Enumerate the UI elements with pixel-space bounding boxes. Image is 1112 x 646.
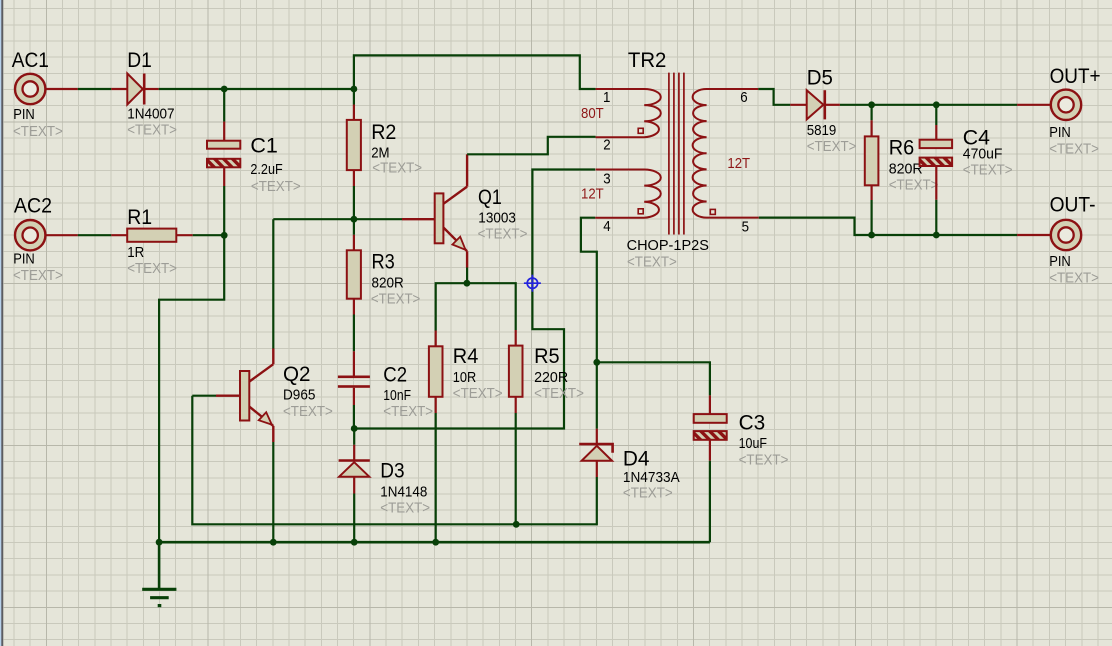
svg-text:13003: 13003 <box>478 210 516 226</box>
svg-text:470uF: 470uF <box>963 146 1003 162</box>
svg-text:<TEXT>: <TEXT> <box>739 452 789 468</box>
wire Q2 emitter to ground rail <box>272 442 274 542</box>
svg-text:<TEXT>: <TEXT> <box>383 404 433 420</box>
svg-text:OUT+: OUT+ <box>1050 64 1101 88</box>
transformer TR2 core <box>669 73 684 235</box>
resistor R5 220R <box>509 330 523 413</box>
svg-text:D965: D965 <box>283 388 315 404</box>
svg-text:<TEXT>: <TEXT> <box>380 501 430 517</box>
wire R6 to OUT- rail <box>870 200 872 235</box>
wire OUT- rail to OUT- <box>936 234 1017 236</box>
capacitor C2 10nF <box>338 351 370 405</box>
svg-text:<TEXT>: <TEXT> <box>627 254 677 270</box>
wire AC1 to D1 anode <box>78 88 112 90</box>
svg-text:D3: D3 <box>380 459 404 483</box>
node J junction <box>933 101 940 108</box>
resistor R2 2M <box>347 89 361 186</box>
svg-text:<TEXT>: <TEXT> <box>13 268 63 284</box>
wire TR2 pin 4 to node H <box>581 218 597 363</box>
node I junction <box>868 101 875 108</box>
svg-text:<TEXT>: <TEXT> <box>889 178 939 194</box>
svg-text:<TEXT>: <TEXT> <box>478 227 528 243</box>
node A junction <box>221 86 228 93</box>
svg-text:<TEXT>: <TEXT> <box>127 261 177 277</box>
connector pin AC2 <box>15 220 78 250</box>
wire node E to R4 <box>436 283 467 330</box>
wire node E to R5 <box>467 283 516 330</box>
svg-text:PIN: PIN <box>13 251 35 267</box>
svg-text:2: 2 <box>603 138 610 154</box>
transistor Q2 D965 <box>216 349 273 443</box>
svg-text:R5: R5 <box>534 344 560 368</box>
wire node D to Q1 base <box>354 218 402 220</box>
svg-text:TR2: TR2 <box>628 48 667 72</box>
svg-text:<TEXT>: <TEXT> <box>13 124 63 140</box>
svg-text:<TEXT>: <TEXT> <box>963 163 1013 179</box>
svg-text:PIN: PIN <box>13 107 35 123</box>
junction D3 to ground rail <box>351 539 358 546</box>
svg-text:<TEXT>: <TEXT> <box>283 404 333 420</box>
svg-text:R2: R2 <box>371 120 396 144</box>
svg-text:D4: D4 <box>623 446 650 470</box>
capacitor C3 10uF <box>694 395 727 460</box>
wire down to Q2 collector <box>272 219 274 348</box>
wire D1 cathode to node A <box>159 88 225 90</box>
svg-text:PIN: PIN <box>1049 254 1071 270</box>
svg-text:2.2uF: 2.2uF <box>250 162 282 178</box>
svg-text:<TEXT>: <TEXT> <box>623 486 673 502</box>
wire node C to ground rail <box>159 235 224 542</box>
wire Q1 emitter to node E <box>466 268 468 284</box>
resistor R6 820R <box>865 105 879 200</box>
svg-text:OUT-: OUT- <box>1050 192 1096 216</box>
transformer TR2 feedback winding 12T (pins 3-4) <box>595 170 661 218</box>
svg-text:<TEXT>: <TEXT> <box>1049 271 1099 287</box>
svg-text:1N4148: 1N4148 <box>380 485 427 501</box>
transformer TR2 secondary winding 12T (pins 6-5) <box>693 89 759 218</box>
transformer TR2 primary winding 80T (pins 1-2) <box>596 89 661 137</box>
svg-text:<TEXT>: <TEXT> <box>453 386 503 402</box>
wire R4 to ground rail <box>435 413 437 542</box>
wire TR2 pin 3 to node G <box>354 170 595 429</box>
origin marker crosshair <box>524 275 541 292</box>
svg-text:<TEXT>: <TEXT> <box>371 291 420 307</box>
resistor R3 820R <box>347 219 361 314</box>
resistor R1 1R <box>111 229 192 242</box>
wire TR2 pin 6 to D5 anode <box>758 89 790 105</box>
diode D1 1N4007 <box>111 74 158 105</box>
junction R4 to ground rail <box>432 539 439 546</box>
wire node A to node B <box>224 88 354 90</box>
svg-text:AC2: AC2 <box>14 194 52 218</box>
svg-text:Q1: Q1 <box>478 185 502 209</box>
svg-text:C1: C1 <box>250 134 278 158</box>
wire node J to OUT+ <box>936 104 1017 106</box>
wire C3 to ground rail <box>709 461 711 543</box>
node G junction <box>351 425 358 432</box>
wire node I to node J <box>872 104 937 106</box>
polarity dot of secondary winding <box>710 209 715 214</box>
svg-text:<TEXT>: <TEXT> <box>372 161 422 177</box>
svg-text:R4: R4 <box>453 344 479 368</box>
svg-text:C3: C3 <box>739 410 766 434</box>
svg-text:10nF: 10nF <box>383 388 411 404</box>
svg-text:5: 5 <box>742 219 749 235</box>
polarity dot of winding 12T primary side <box>638 209 643 214</box>
ground <box>142 542 176 605</box>
wire R2 to node D <box>353 186 355 219</box>
svg-text:1: 1 <box>603 90 610 106</box>
svg-text:820R: 820R <box>372 275 404 291</box>
wire Q2 base left <box>192 395 216 397</box>
svg-text:AC1: AC1 <box>12 48 49 72</box>
svg-text:4: 4 <box>603 219 610 235</box>
diode D5 5819 <box>790 90 840 119</box>
wire Q1 collector to TR2 pin 2 <box>467 137 595 155</box>
wire R5 to node F <box>515 413 517 524</box>
wire R1 to node C <box>193 234 225 236</box>
svg-text:10uF: 10uF <box>739 436 767 452</box>
connector pin OUT+ <box>1017 90 1081 120</box>
diode D3 1N4148 <box>339 429 370 494</box>
svg-text:820R: 820R <box>889 161 923 177</box>
wire R3 to C2 <box>353 315 355 352</box>
svg-text:1R: 1R <box>127 245 144 261</box>
svg-text:C2: C2 <box>383 362 407 386</box>
svg-text:D1: D1 <box>127 48 152 72</box>
svg-text:12T: 12T <box>581 186 604 202</box>
wire node H to C3 <box>597 362 710 395</box>
svg-text:CHOP-1P2S: CHOP-1P2S <box>627 238 710 254</box>
resistor R4 10R <box>429 331 443 414</box>
svg-text:Q2: Q2 <box>283 362 311 386</box>
svg-text:6: 6 <box>740 90 747 106</box>
junction R6 to OUT- rail <box>868 232 875 239</box>
svg-text:5819: 5819 <box>807 123 837 139</box>
wire D5 to node I <box>840 104 872 106</box>
node D junction <box>351 216 358 223</box>
wire D3 to ground rail <box>353 494 355 543</box>
wire node F to D4 anode <box>516 477 597 524</box>
node C junction <box>221 232 228 239</box>
capacitor C1 2.2uF <box>207 89 240 186</box>
polarity dot of winding 80T <box>638 128 643 133</box>
transistor Q1 13003 <box>402 154 467 267</box>
wire OUT- rail left <box>872 234 937 236</box>
svg-text:1N4733A: 1N4733A <box>623 470 680 486</box>
svg-text:<TEXT>: <TEXT> <box>534 386 584 402</box>
node B junction <box>351 86 358 93</box>
svg-text:80T: 80T <box>581 106 604 122</box>
svg-text:PIN: PIN <box>1049 125 1071 141</box>
wire Q2 base to node F <box>192 396 516 525</box>
junction Q2 emitter to ground rail <box>270 539 277 546</box>
wire ground rail <box>159 541 710 544</box>
svg-text:<TEXT>: <TEXT> <box>807 139 857 155</box>
svg-text:<TEXT>: <TEXT> <box>1049 142 1099 158</box>
node F junction <box>513 521 520 528</box>
wire node B to TR2 pin 1 <box>354 55 596 89</box>
svg-text:R6: R6 <box>889 136 915 160</box>
svg-text:D5: D5 <box>807 65 833 89</box>
svg-text:10R: 10R <box>453 370 476 386</box>
junction C4 to OUT- rail <box>933 232 940 239</box>
connector pin AC1 <box>15 74 78 104</box>
wire C4 to OUT- rail <box>935 200 937 235</box>
zener diode D4 1N4733A <box>579 362 612 477</box>
wire C2 to node G <box>353 405 355 429</box>
wire AC2 to R1 <box>78 234 112 236</box>
svg-text:<TEXT>: <TEXT> <box>251 179 301 195</box>
svg-text:12T: 12T <box>727 156 750 172</box>
connector pin OUT- <box>1017 220 1081 250</box>
svg-text:<TEXT>: <TEXT> <box>127 123 177 139</box>
capacitor C4 470uF <box>920 105 953 200</box>
junction ground tap <box>156 539 163 546</box>
svg-text:2M: 2M <box>371 146 389 162</box>
svg-text:R1: R1 <box>127 205 152 229</box>
svg-text:3: 3 <box>603 171 610 187</box>
wire TR2 pin 5 to OUT- rail <box>759 218 872 235</box>
svg-text:220R: 220R <box>534 370 568 386</box>
wire Q2 collector to node D <box>273 218 354 220</box>
node E junction <box>464 280 471 287</box>
svg-text:1N4007: 1N4007 <box>127 107 174 123</box>
node H junction <box>593 359 600 366</box>
svg-text:R3: R3 <box>372 250 395 274</box>
wire C1 to node C <box>223 186 225 235</box>
